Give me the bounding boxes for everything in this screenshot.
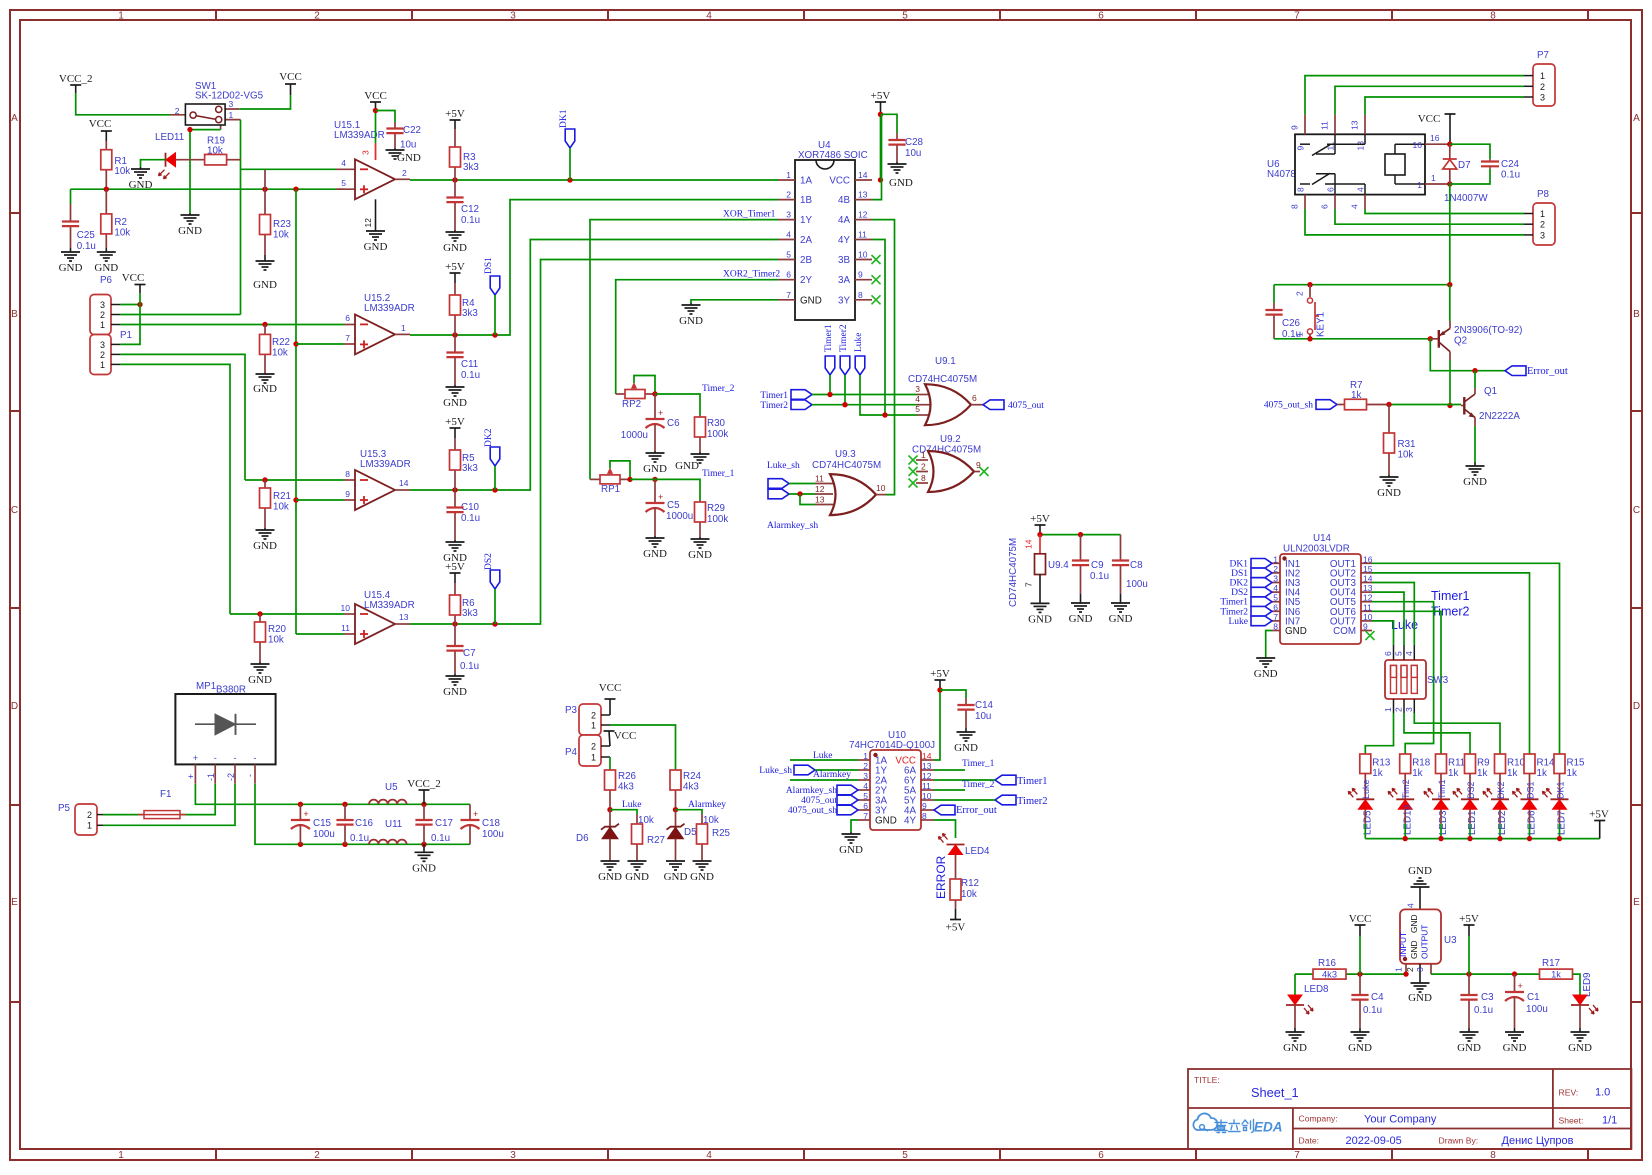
svg-text:10: 10	[922, 791, 932, 801]
svg-text:5: 5	[902, 11, 908, 22]
svg-text:1: 1	[100, 360, 105, 370]
wire P7 pin3 to relay pin13	[1365, 97, 1524, 115]
svg-text:6: 6	[786, 270, 791, 280]
svg-text:3k3: 3k3	[463, 162, 479, 173]
wire OUT4 to SW3 pin5	[1372, 592, 1404, 645]
svg-text:6: 6	[863, 801, 868, 811]
svg-text:U3: U3	[1444, 935, 1457, 946]
ground at C9	[1080, 594, 1082, 603]
svg-text:MP1: MP1	[196, 681, 216, 692]
svg-text:8: 8	[1296, 187, 1306, 192]
pin 7 IN7 of U14	[1272, 620, 1280, 622]
wire P6 pin2 to SW1	[120, 314, 241, 316]
wire KEY1 top rail	[1274, 284, 1450, 286]
svg-text:3: 3	[863, 771, 868, 781]
svg-text:0.1u: 0.1u	[461, 513, 480, 524]
LED LED6	[1521, 798, 1539, 800]
svg-text:C1: C1	[1527, 992, 1540, 1003]
wire relay pin8 to P8 pin3	[1305, 209, 1524, 235]
resistor R15 1k	[1554, 754, 1565, 774]
wire to U15.2 pin7	[296, 343, 344, 345]
svg-text:SW3: SW3	[1427, 675, 1449, 686]
svg-text:GND: GND	[443, 242, 467, 254]
net flag DS2 at U14	[1251, 587, 1272, 597]
svg-text:8: 8	[922, 811, 927, 821]
svg-text:LED4: LED4	[965, 846, 990, 857]
svg-text:1: 1	[1540, 71, 1545, 81]
svg-text:Sheet_1: Sheet_1	[1251, 1085, 1299, 1100]
net flag Timer2 at U14	[1251, 607, 1272, 617]
svg-text:12: 12	[363, 218, 373, 228]
svg-text:2A: 2A	[800, 235, 812, 246]
svg-text:DK1: DK1	[1555, 781, 1565, 799]
svg-text:16: 16	[1413, 140, 1423, 150]
svg-text:11: 11	[858, 230, 867, 240]
svg-text:Luke: Luke	[1228, 617, 1248, 627]
svg-text:CD74HC4075M: CD74HC4075M	[1008, 538, 1019, 607]
svg-text:12: 12	[1363, 593, 1373, 603]
svg-text:4: 4	[915, 394, 920, 404]
wire to U15.3 pin8	[245, 479, 344, 481]
LED LED3	[1432, 798, 1450, 800]
svg-text:8: 8	[921, 473, 926, 483]
svg-text:DS1: DS1	[1525, 781, 1535, 799]
pin 16 of U6	[1425, 143, 1450, 145]
junction	[1357, 971, 1362, 976]
pin 9 3A of U4	[855, 279, 872, 281]
wire MP1 minus to bottom rail	[255, 784, 470, 845]
svg-text:1k: 1k	[1551, 970, 1561, 980]
junction	[421, 842, 426, 847]
svg-text:10k: 10k	[114, 166, 130, 177]
svg-text:3k3: 3k3	[462, 608, 478, 619]
wire OUT5 to R18	[1372, 602, 1434, 754]
svg-text:C6: C6	[667, 418, 680, 429]
svg-text:2: 2	[591, 711, 596, 721]
svg-text:4Y: 4Y	[904, 816, 916, 827]
wire LED row rail	[1365, 838, 1599, 840]
svg-text:1k: 1k	[1537, 768, 1547, 779]
junction	[104, 187, 109, 192]
svg-text:R21: R21	[273, 491, 291, 502]
svg-text:DK1: DK1	[559, 109, 569, 128]
junction	[1403, 836, 1408, 841]
svg-text:DS2: DS2	[1466, 781, 1476, 799]
wire	[860, 375, 917, 415]
svg-text:100u: 100u	[1526, 1004, 1548, 1015]
svg-text:GND: GND	[1254, 668, 1278, 680]
svg-text:Error_out: Error_out	[956, 805, 997, 816]
junction	[293, 341, 298, 346]
ground at R25	[701, 860, 703, 862]
svg-text:10: 10	[858, 250, 868, 260]
junction	[1438, 836, 1443, 841]
svg-text:5: 5	[863, 791, 868, 801]
resistor R11 1k	[1436, 754, 1447, 774]
svg-text:10u: 10u	[400, 140, 416, 151]
resistor R13 1k	[1360, 754, 1371, 774]
pin 13 OUT4 of U14	[1361, 591, 1372, 593]
pin 4 IN4 of U14	[1272, 591, 1280, 593]
junction	[1386, 402, 1391, 407]
wire	[829, 375, 831, 395]
wire VCC to P1 pin3	[120, 293, 140, 344]
no-connect pin 9 of U4	[872, 275, 881, 284]
pin 8 GND of U14	[1272, 630, 1280, 632]
pin 3 of U3	[1430, 964, 1432, 974]
svg-text:GND: GND	[253, 279, 277, 291]
wire relay pin4 to P8 pin1	[1365, 209, 1524, 214]
power flag +5V at U9.4	[1035, 524, 1046, 526]
pin 6 3Y of U10	[858, 809, 870, 811]
svg-text:+: +	[658, 492, 663, 502]
svg-text:1: 1	[87, 821, 92, 831]
svg-text:C3: C3	[1481, 992, 1494, 1003]
svg-text:DS1: DS1	[1231, 569, 1248, 579]
svg-text:1A: 1A	[800, 176, 812, 187]
svg-text:0.1u: 0.1u	[460, 661, 479, 672]
ground at C5	[654, 536, 656, 538]
svg-text:C: C	[11, 505, 18, 516]
svg-text:10k: 10k	[268, 635, 284, 646]
svg-text:GND: GND	[664, 871, 688, 883]
svg-text:8: 8	[1273, 622, 1278, 632]
svg-text:0.1u: 0.1u	[1363, 1005, 1382, 1016]
svg-text:Date:: Date:	[1299, 1136, 1320, 1146]
svg-text:5: 5	[786, 250, 791, 260]
svg-text:2: 2	[1295, 291, 1305, 296]
svg-text:+5V: +5V	[1459, 913, 1479, 925]
power flag +5V at U10	[935, 679, 946, 681]
ground at U9.4	[1039, 602, 1041, 604]
pin 2 1Y of U10	[858, 769, 870, 771]
svg-text:7: 7	[1294, 11, 1300, 22]
svg-text:VCC: VCC	[599, 682, 622, 694]
junction	[1557, 836, 1562, 841]
svg-text:GND: GND	[253, 540, 277, 552]
ground at LED8	[1294, 1028, 1296, 1032]
svg-text:F1: F1	[160, 789, 171, 800]
svg-text:1: 1	[1383, 707, 1393, 712]
svg-text:0.1u: 0.1u	[461, 370, 480, 381]
svg-text:-: -	[234, 753, 237, 763]
svg-text:DS2: DS2	[1231, 588, 1248, 598]
svg-text:GND: GND	[253, 383, 277, 395]
svg-text:100k: 100k	[707, 429, 728, 440]
junction	[1037, 532, 1042, 537]
junction	[1447, 142, 1452, 147]
wire OUT6 to R11	[1372, 611, 1441, 754]
ground at SW1	[189, 213, 191, 215]
svg-text:XOR2_Timer2: XOR2_Timer2	[723, 270, 780, 280]
wire	[812, 394, 917, 396]
svg-text:5: 5	[902, 1150, 908, 1161]
pin 11 4Y of U4	[855, 239, 872, 241]
svg-text:5: 5	[1394, 651, 1404, 656]
wire	[815, 769, 858, 771]
junction	[293, 187, 298, 192]
svg-text:Luke: Luke	[1361, 779, 1371, 799]
junction	[452, 177, 457, 182]
svg-text:-: -	[245, 774, 255, 777]
svg-text:5: 5	[915, 404, 920, 414]
pin 10 OUT7 of U14	[1361, 620, 1372, 622]
power flag VCC at P4	[604, 730, 615, 732]
pin 2 IN2 of U14	[1272, 572, 1280, 574]
svg-text:4k3: 4k3	[618, 782, 634, 793]
svg-text:16: 16	[1430, 133, 1440, 143]
svg-text:C4: C4	[1371, 992, 1384, 1003]
svg-text:Luke: Luke	[854, 332, 864, 352]
svg-text:10k: 10k	[961, 889, 977, 900]
svg-text:+: +	[193, 753, 198, 763]
svg-text:2: 2	[1540, 220, 1545, 230]
svg-text:R24: R24	[683, 771, 702, 782]
relay U6 contact bottom	[1300, 183, 1310, 185]
wire	[610, 810, 637, 814]
LED LED10	[1396, 798, 1414, 800]
net flag DK2 at U14	[1251, 578, 1272, 588]
pin 5 2B of U4	[778, 259, 795, 261]
wire MP1 plus to filter rail	[195, 784, 470, 805]
pin 6 2Y of U4	[778, 279, 795, 281]
svg-text:2: 2	[1394, 707, 1404, 712]
ground at D5	[675, 860, 677, 862]
wire Q2 base to Error_out	[1430, 339, 1505, 371]
svg-text:2B: 2B	[800, 255, 812, 266]
svg-text:12: 12	[922, 771, 932, 781]
svg-text:0.1u: 0.1u	[350, 833, 369, 844]
svg-text:6: 6	[1320, 204, 1330, 209]
svg-text:1: 1	[786, 170, 791, 180]
svg-text:6: 6	[1273, 602, 1278, 612]
wire OUT2 to R14	[1372, 573, 1530, 754]
pin 5 3A of U10	[858, 799, 870, 801]
svg-text:P7: P7	[1537, 50, 1549, 61]
junction	[797, 491, 802, 496]
ground at filter	[423, 844, 425, 852]
wire	[934, 690, 940, 760]
svg-text:Alarmkey_sh: Alarmkey_sh	[786, 786, 837, 796]
junction	[1428, 336, 1433, 341]
junction	[298, 842, 303, 847]
wire node to op-amp pin5	[71, 188, 345, 190]
ground at R21	[264, 528, 266, 530]
junction	[492, 332, 497, 337]
junction	[298, 802, 303, 807]
svg-text:1000u: 1000u	[666, 511, 693, 522]
svg-text:R25: R25	[712, 828, 731, 839]
junction	[1466, 971, 1471, 976]
ground at U10	[850, 832, 852, 834]
ground at C10	[454, 540, 456, 542]
svg-text:C14: C14	[975, 700, 994, 711]
svg-text:GND: GND	[443, 686, 467, 698]
svg-text:3: 3	[510, 1150, 516, 1161]
svg-text:GND: GND	[397, 152, 421, 164]
svg-text:P5: P5	[58, 803, 71, 814]
svg-text:100u: 100u	[313, 829, 335, 840]
svg-text:U11: U11	[385, 819, 402, 830]
ground at C7	[454, 674, 456, 676]
svg-text:11: 11	[815, 474, 824, 484]
svg-text:2: 2	[314, 1150, 320, 1161]
wire Q1 emitter to ground	[1474, 426, 1476, 462]
junction	[1512, 971, 1517, 976]
svg-text:A: A	[1633, 113, 1640, 124]
svg-text:4: 4	[863, 781, 868, 791]
svg-text:9: 9	[345, 489, 350, 499]
svg-text:4075_out_sh: 4075_out_sh	[1264, 401, 1313, 411]
svg-text:GND: GND	[1408, 992, 1432, 1004]
wire OUT3 to SW3 pin4	[1372, 583, 1414, 646]
svg-text:GND: GND	[1457, 1042, 1481, 1054]
ground at C28	[896, 162, 898, 164]
svg-text:VCC: VCC	[122, 272, 145, 284]
pin 1 of U3	[1405, 964, 1407, 974]
svg-text:1: 1	[1540, 209, 1545, 219]
svg-text:7: 7	[1294, 1150, 1300, 1161]
svg-text:0.1u: 0.1u	[77, 241, 96, 252]
junction	[1472, 368, 1477, 373]
svg-text:8: 8	[1490, 11, 1496, 22]
no-connect U9.2 pin2	[909, 467, 918, 476]
svg-text:LM339ADR: LM339ADR	[364, 600, 415, 611]
wire P3 pin1 to R24	[610, 725, 676, 769]
svg-text:7: 7	[345, 333, 350, 343]
svg-text:LED11: LED11	[155, 132, 184, 143]
svg-text:E: E	[11, 897, 18, 908]
svg-text:P4: P4	[565, 747, 578, 758]
wire SW1 net to U15.1 pin4	[241, 168, 337, 170]
svg-text:R17: R17	[1542, 958, 1560, 969]
svg-text:10: 10	[876, 483, 886, 493]
svg-text:-1: -1	[206, 773, 216, 781]
pin 8 of U6	[1304, 195, 1306, 209]
svg-text:10u: 10u	[975, 711, 991, 722]
svg-text:Timer1: Timer1	[1431, 589, 1469, 603]
ground at R2	[105, 248, 107, 252]
pin 6 of U6	[1334, 195, 1336, 209]
svg-text:R16: R16	[1318, 958, 1337, 969]
svg-text:R23: R23	[273, 219, 292, 230]
ground at U14	[1265, 657, 1267, 658]
svg-text:3B: 3B	[838, 255, 850, 266]
ground at C12	[454, 230, 456, 232]
svg-text:Timer2: Timer2	[1220, 607, 1248, 617]
svg-text:Your Company: Your Company	[1364, 1114, 1437, 1126]
svg-text:1: 1	[118, 1150, 124, 1161]
no-connect U9.2 output	[980, 467, 989, 476]
junction	[652, 477, 657, 482]
svg-text:LED10: LED10	[1402, 804, 1413, 835]
svg-text:13: 13	[1350, 120, 1360, 130]
svg-text:GND: GND	[643, 548, 667, 560]
wire	[494, 466, 496, 490]
svg-text:4075_out: 4075_out	[1008, 401, 1044, 411]
LED LED1	[1461, 798, 1479, 800]
net flag Timer1 output	[995, 775, 1016, 785]
svg-text:C24: C24	[1501, 159, 1520, 170]
svg-text:TITLE:: TITLE:	[1194, 1075, 1220, 1085]
svg-text:GND: GND	[412, 862, 436, 874]
svg-text:LED9: LED9	[1582, 972, 1593, 997]
no-connect U9.2 pin8	[909, 479, 918, 488]
svg-text:Timer2: Timer2	[839, 324, 849, 352]
power flag +5V at U4	[875, 101, 886, 103]
svg-text:B: B	[11, 309, 18, 320]
svg-text:GND: GND	[1408, 865, 1432, 877]
pin 3 1Y of U4	[778, 219, 795, 221]
svg-text:15: 15	[1363, 564, 1373, 574]
wire SW3 pin1 to R13	[1365, 713, 1393, 754]
wire	[494, 589, 496, 624]
wire SW1 bottom pin to GND	[190, 130, 221, 213]
svg-text:XOR_Timer1: XOR_Timer1	[723, 210, 776, 220]
ground at C25	[70, 248, 72, 252]
junction	[878, 177, 883, 182]
pin 13 of U6	[1364, 115, 1366, 135]
wire MP1 ac1 to fuse	[180, 784, 215, 815]
resistor R9 1k	[1465, 754, 1476, 774]
pin 15 OUT2 of U14	[1361, 572, 1372, 574]
wire	[812, 404, 917, 406]
svg-text:1k: 1k	[1372, 768, 1382, 779]
svg-text:ULN2003LVDR: ULN2003LVDR	[1283, 544, 1350, 555]
junction	[262, 477, 267, 482]
svg-text:14: 14	[1363, 574, 1373, 584]
svg-text:1k: 1k	[1567, 768, 1577, 779]
svg-text:10: 10	[1363, 612, 1373, 622]
pin 12 4A of U4	[855, 219, 872, 221]
wire R7 to Q1 base	[1389, 404, 1461, 406]
svg-text:C22: C22	[403, 125, 421, 136]
wire	[790, 759, 858, 761]
svg-text:4: 4	[1273, 583, 1278, 593]
svg-text:R14: R14	[1537, 758, 1556, 769]
svg-text:P8: P8	[1537, 189, 1550, 200]
wire U14 GND	[1266, 631, 1272, 658]
svg-text:1.0: 1.0	[1595, 1087, 1610, 1099]
junction	[1527, 836, 1532, 841]
svg-text:Tim1: Tim1	[1437, 779, 1447, 799]
wire U15.1 output	[395, 178, 410, 180]
svg-text:1/1: 1/1	[1602, 1115, 1617, 1127]
wire to U15.3 pin9	[296, 499, 344, 501]
svg-text:6: 6	[345, 313, 350, 323]
wire SW3 pin2 to R9	[1404, 713, 1470, 754]
svg-text:GND: GND	[1069, 613, 1093, 625]
svg-text:+5V: +5V	[1030, 513, 1050, 525]
wire regulator output rail	[1431, 973, 1540, 975]
svg-text:C5: C5	[667, 500, 680, 511]
pin 3 IN3 of U14	[1272, 582, 1280, 584]
wire Q2 collector down to Q1 base node	[1449, 360, 1451, 406]
svg-text:4B: 4B	[838, 195, 850, 206]
junction	[878, 112, 883, 117]
regulator U3	[1400, 909, 1441, 963]
svg-text:2: 2	[402, 168, 407, 178]
svg-text:GND: GND	[675, 460, 699, 472]
svg-text:5: 5	[1273, 593, 1278, 603]
svg-text:12: 12	[815, 484, 825, 494]
svg-text:7: 7	[1273, 612, 1278, 622]
svg-text:GND: GND	[248, 674, 272, 686]
LED LED2	[1491, 798, 1509, 800]
pin 1 IN1 of U14	[1272, 562, 1280, 564]
power flag VCC at U15.1 pin3	[370, 101, 381, 103]
junction	[1447, 181, 1452, 186]
